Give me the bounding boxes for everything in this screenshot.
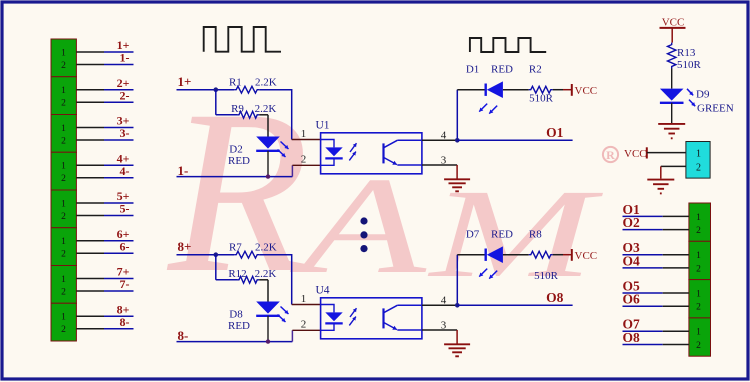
square wave symbol (output) [470,38,546,52]
connector block P1 (left, pins 1-2) [51,39,76,77]
svg-text:8+: 8+ [178,239,192,254]
LED D1 emission arrows [479,104,497,114]
wire 3+ (pin1) [76,127,133,129]
label 3- [120,126,130,140]
svg-text:GREEN: GREEN [697,102,734,114]
svg-text:2.2K: 2.2K [255,103,277,115]
svg-text:D8: D8 [229,309,243,321]
label 6- [120,239,130,253]
svg-text:2.2K: 2.2K [255,268,277,280]
label 4+ [117,151,130,165]
wire R8 to VCC [553,254,572,256]
resistor R13 510R [668,43,676,69]
wire 4+ (pin1) [76,164,133,166]
LED D8 RED [256,302,280,316]
label O8 net [546,290,564,305]
LED D7 RED indicator [486,246,503,263]
power VCC (D9 branch) [660,16,686,42]
svg-text:2: 2 [696,264,701,274]
svg-text:1: 1 [61,124,66,134]
connector block J2 (right, pins 1-2) [689,241,711,279]
svg-text:2: 2 [61,212,66,222]
wire O6 to pin2 [623,305,689,307]
svg-text:RED: RED [491,229,513,241]
svg-text:2: 2 [696,162,701,173]
power VCC (O1 indicator) [572,84,597,97]
svg-text:1: 1 [696,149,701,160]
opto U4 internal LED [321,305,343,331]
label O7 (right panel) [623,317,641,332]
junction node 1+ [214,87,219,92]
opto U1 light arrows [349,143,356,160]
wire O1 to pin1 [623,215,689,217]
svg-text:1: 1 [301,293,307,305]
label 1+ [117,38,130,52]
label RED (D7) [491,229,513,241]
label U4 [316,284,330,296]
wire 6- (pin2) [76,252,133,254]
label R13 [677,47,696,59]
label 8+ [117,302,130,316]
opto U4 pin1 stub [292,304,321,306]
svg-text:1+: 1+ [178,74,192,89]
junction node 8- [266,339,270,343]
wire 8- rail [177,330,293,341]
opto U4 pin4 number [441,294,447,306]
svg-text:5-: 5- [120,202,130,216]
label 2.2K (R9) [255,103,277,115]
ground (U1 emitter) [444,165,470,191]
wire 7+ (pin1) [76,278,133,280]
connector block P5 (left, pins 1-2) [51,190,76,228]
wire R7-branch down [216,255,237,280]
svg-text:1: 1 [61,199,66,209]
svg-text:2: 2 [61,325,66,335]
svg-text:1: 1 [61,162,66,172]
connector block P2 (left, pins 1-2) [51,77,76,115]
opto U1 pin1 stub [292,139,321,141]
ground (power header) [647,180,674,194]
wire 2- (pin2) [76,101,133,103]
wire O4 to pin2 [623,267,689,269]
label 2.2K (R1) [255,77,277,89]
wire output O1 [457,139,572,141]
label D7 [466,229,480,241]
svg-text:RED: RED [491,64,513,76]
connector block P7 (left, pins 1-2) [51,266,76,304]
connector P-power (cyan, pins 1-2) [686,142,710,179]
opto U4 light arrows [349,308,356,325]
label RED (D1) [491,64,513,76]
svg-text:RED: RED [228,320,250,332]
svg-text:3: 3 [441,154,447,166]
label O1 net [546,125,564,140]
svg-text:2: 2 [301,319,307,331]
svg-text:4: 4 [441,129,447,141]
connector block J4 (right, pins 1-2) [689,318,711,356]
junction node O1 [455,138,460,143]
wire O8 to pin2 [623,344,689,346]
wire R2 to VCC [553,89,572,91]
wire node to D7 [457,254,485,256]
svg-text:O2: O2 [623,215,641,230]
svg-text:2.2K: 2.2K [255,77,277,89]
svg-text:R9: R9 [231,103,244,115]
svg-text:8-: 8- [120,315,130,329]
opto U4 pin3 stub [422,329,457,331]
label 8- [120,315,130,329]
label 7- [120,277,130,291]
label 2+ [117,76,130,90]
wire 3- (pin2) [76,139,133,141]
optocoupler U4 box [321,298,422,339]
label R9 [231,103,244,115]
connector block P6 (left, pins 1-2) [51,228,76,266]
svg-text:510R: 510R [534,270,559,282]
wire R12 to LED [259,280,268,302]
wire U1 collector to indicator [456,90,458,141]
svg-text:U1: U1 [316,119,330,131]
svg-text:2: 2 [61,250,66,260]
svg-text:VCC: VCC [662,16,685,28]
svg-text:R1: R1 [229,77,242,89]
opto U4 pin1 number [301,293,307,305]
junction node 1- [266,174,270,178]
resistor R2 510R [529,86,553,93]
LED D7 emission arrows [479,269,497,279]
svg-text:2: 2 [61,174,66,184]
opto U4 pin3 number [441,319,447,331]
svg-text:1: 1 [696,289,701,299]
label O3 (right panel) [623,240,641,255]
label 8- net [178,328,189,343]
label O8 (right panel) [623,330,641,345]
opto U1 internal LED [321,140,343,166]
svg-text:4: 4 [441,294,447,306]
svg-text:1: 1 [61,86,66,96]
resistor R12 2.2K [237,276,259,283]
wire D8 cathode to rail [267,316,269,342]
opto U4 pin4 stub [422,304,457,306]
svg-text:VCC: VCC [575,250,598,262]
opto U4 pin2 number [301,319,307,331]
opto U1 pin4 number [441,129,447,141]
LED D1 RED indicator [486,81,503,98]
svg-text:510R: 510R [529,93,554,105]
svg-text:A: A [289,148,427,302]
svg-text:2.2K: 2.2K [255,242,277,254]
label O2 (right panel) [623,215,641,230]
label RED (D8) [228,320,250,332]
connector block P3 (left, pins 1-2) [51,115,76,153]
watermark registered trademark symbol [603,147,618,162]
svg-text:R2: R2 [529,64,542,76]
svg-text:510R: 510R [677,59,702,71]
svg-text:3-: 3- [120,126,130,140]
wire O3 to pin1 [623,254,689,256]
wire O2 to pin2 [623,229,689,231]
wire O5 to pin1 [623,292,689,294]
svg-text:2-: 2- [120,89,130,103]
wire 1- rail [177,165,293,176]
label R12 [228,268,246,280]
label 8+ net [178,239,192,254]
label 510R (R13) [677,59,702,71]
label 510R (R2) [529,93,554,105]
label 5- [120,202,130,216]
resistor R8 510R [529,251,553,258]
wire R13 to D9 [671,69,673,89]
LED D2 RED [256,137,280,151]
svg-text:O4: O4 [623,253,641,268]
svg-text:R: R [606,148,615,162]
label D1 [466,64,479,76]
svg-text:2: 2 [696,226,701,236]
label 6+ [117,227,130,241]
svg-text:VCC: VCC [575,85,598,97]
label 2.2K (R12) [255,268,277,280]
svg-text:4-: 4- [120,164,130,178]
svg-text:VCC: VCC [624,148,647,160]
wire output O8 [457,304,572,306]
wire 1+ rail [177,89,292,140]
watermark RAM [166,63,603,321]
wire 5- (pin2) [76,215,133,217]
label O6 (right panel) [623,292,641,307]
svg-text:2: 2 [696,341,701,351]
junction node O8 [455,303,460,308]
label 2.2K (R7) [255,242,277,254]
svg-text:1: 1 [696,213,701,223]
svg-text:2: 2 [61,61,66,71]
label 1+ net [178,74,192,89]
svg-text:D2: D2 [229,144,242,156]
svg-text:D9: D9 [696,88,710,100]
connector block J1 (right, pins 1-2) [689,203,711,241]
wire D2 cathode to rail [267,151,269,177]
power VCC (O8 indicator) [572,249,597,262]
label 5+ [117,189,130,203]
opto U1 pin3 number [441,154,447,166]
svg-text:O6: O6 [623,292,641,307]
power VCC (input header) [624,147,647,160]
wire D7 to R8 [503,254,529,256]
wire 4- (pin2) [76,177,133,179]
label O1 (right panel) [623,202,641,217]
opto U1 pin3 stub [422,164,457,166]
label 1- net [178,163,189,178]
LED D8 emission arrows [278,307,289,323]
label 1- [120,51,130,65]
label U1 [316,119,330,131]
LED D2 emission arrows [278,142,289,158]
svg-text:2: 2 [61,136,66,146]
wire 1+ (pin1) [76,51,133,53]
opto U4 pin2 stub [292,329,320,331]
svg-text:1-: 1- [120,51,130,65]
wire R9 to LED [259,115,268,137]
ellipsis dots (channels 2-7 omitted) [360,217,367,252]
svg-text:R8: R8 [529,229,542,241]
junction node 8+ [214,252,219,257]
resistor R9 2.2K [237,111,259,118]
svg-text:D7: D7 [466,229,480,241]
svg-text:1: 1 [696,251,701,261]
transistor in U1 [384,140,422,165]
connector block J3 (right, pins 1-2) [689,280,711,318]
svg-text:O8: O8 [623,330,641,345]
wire U4 collector to indicator [456,255,458,306]
svg-text:U4: U4 [316,284,330,296]
wire node to D1 [457,89,485,91]
ground (D9) [658,103,685,139]
wire VCC to header pin1 [647,152,686,154]
wire 8+ rail [177,254,292,305]
label GREEN (D9) [697,102,734,114]
svg-text:1: 1 [61,313,66,323]
svg-text:1: 1 [696,328,701,338]
wire 7- (pin2) [76,290,133,292]
label RED (D2) [228,155,250,167]
LED D9 GREEN [660,89,684,103]
svg-text:7-: 7- [120,277,130,291]
opto U1 pin2 stub [292,164,320,166]
opto U1 pin1 number [301,128,307,140]
svg-text:O8: O8 [546,290,564,305]
svg-text:O1: O1 [546,125,564,140]
connector block P8 (left, pins 1-2) [51,303,76,341]
svg-text:1: 1 [301,128,307,140]
label D9 [696,88,710,100]
label R7 [229,242,242,254]
wire 8+ (pin1) [76,315,133,317]
LED D9 emission arrows [687,89,695,106]
label R8 [529,229,542,241]
wire 8- (pin2) [76,328,133,330]
svg-text:3: 3 [441,319,447,331]
label D2 [229,144,242,156]
svg-text:1: 1 [61,48,66,58]
svg-text:2: 2 [61,287,66,297]
label 2- [120,89,130,103]
svg-text:1: 1 [61,237,66,247]
opto U1 pin2 number [301,154,307,166]
svg-text:R: R [166,63,310,321]
svg-text:R12: R12 [228,268,246,280]
svg-text:6-: 6- [120,239,130,253]
label 510R (R8) [534,270,559,282]
label R1 [229,77,242,89]
connector block P4 (left, pins 1-2) [51,152,76,190]
wire header pin2 to ground [661,166,686,178]
wire R1-branch down [216,90,237,115]
ground (U4 emitter) [444,330,470,356]
svg-text:R13: R13 [677,47,696,59]
wire D1 to R2 [503,89,529,91]
label 4- [120,164,130,178]
label R2 [529,64,542,76]
label 7+ [117,265,130,279]
wire 5+ (pin1) [76,202,133,204]
svg-text:D1: D1 [466,64,479,76]
label D8 [229,309,243,321]
svg-text:R7: R7 [229,242,242,254]
wire O7 to pin1 [623,330,689,332]
label O5 (right panel) [623,278,641,293]
resistor R1 2.2K [234,86,259,93]
opto U1 pin4 stub [422,139,457,141]
label 3+ [117,114,130,128]
svg-text:2: 2 [61,99,66,109]
transistor in U4 [384,305,422,330]
wire 1- (pin2) [76,64,133,66]
label O4 (right panel) [623,253,641,268]
square wave symbol (input) [204,27,281,52]
optocoupler U1 box [321,133,422,174]
resistor R7 2.2K [234,251,259,258]
svg-text:1: 1 [61,275,66,285]
svg-text:RED: RED [228,155,250,167]
svg-text:2: 2 [696,303,701,313]
svg-text:2: 2 [301,154,307,166]
wire 2+ (pin1) [76,89,133,91]
wire 6+ (pin1) [76,240,133,242]
